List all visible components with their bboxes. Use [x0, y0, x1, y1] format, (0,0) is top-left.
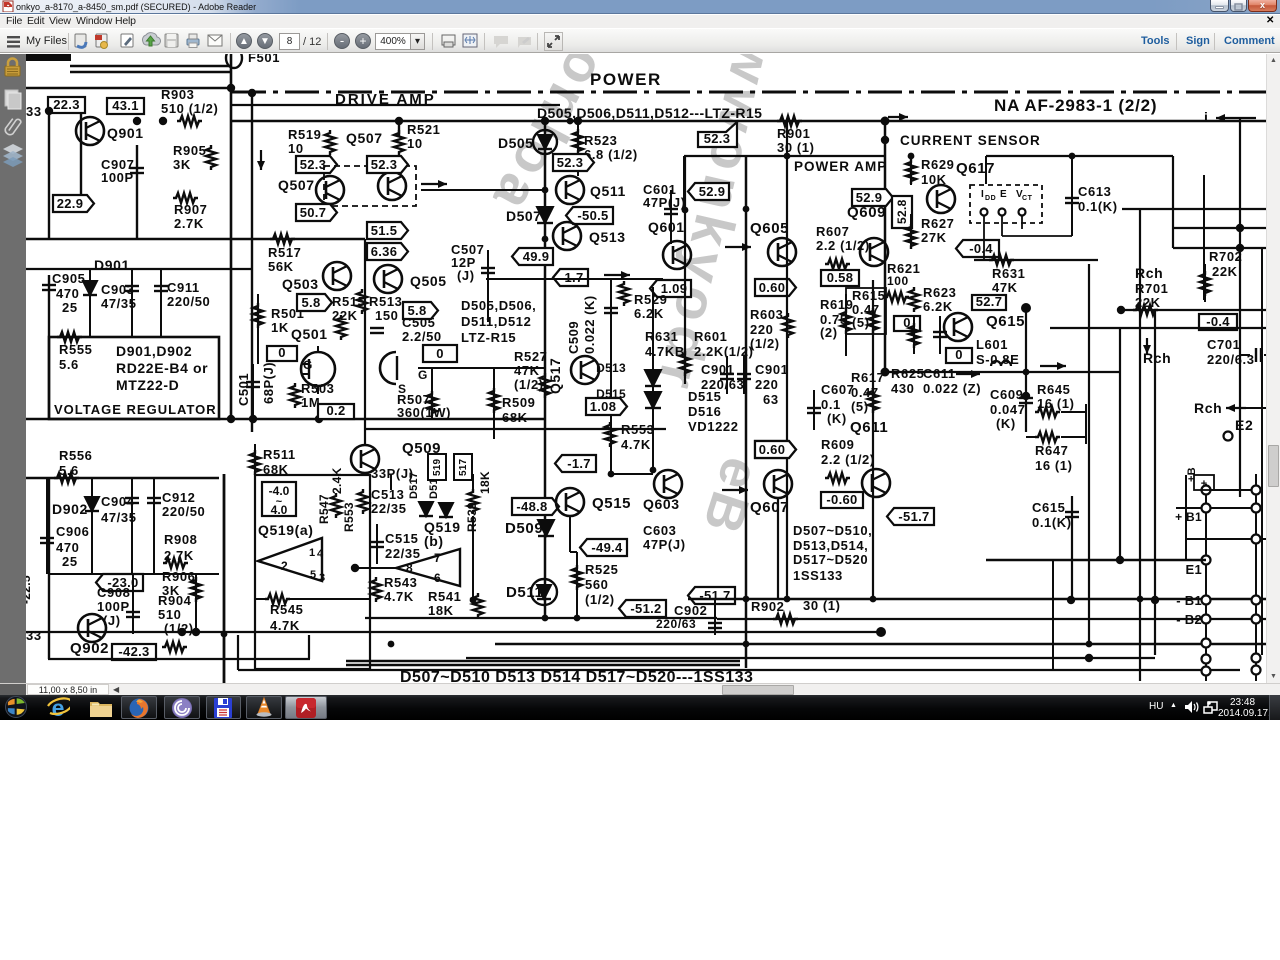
svg-text:22.9: 22.9 — [57, 196, 84, 211]
svg-text:Q902: Q902 — [70, 640, 109, 657]
svg-text:R904: R904 — [158, 593, 192, 608]
svg-text:R511: R511 — [263, 447, 296, 462]
svg-text:F501: F501 — [248, 54, 280, 65]
svg-text:Q519(a): Q519(a) — [258, 522, 314, 538]
svg-text:C513: C513 — [371, 487, 404, 502]
svg-text:I: I — [981, 189, 984, 200]
svg-text:DRIVE AMP: DRIVE AMP — [335, 91, 436, 108]
svg-text:R523: R523 — [584, 133, 617, 148]
svg-text:Q601: Q601 — [648, 219, 685, 235]
svg-text:D505: D505 — [498, 135, 533, 151]
svg-text:R901: R901 — [777, 126, 810, 141]
svg-text:- B1: - B1 — [1176, 593, 1202, 608]
svg-text:C603: C603 — [643, 523, 676, 538]
svg-text:R647: R647 — [1035, 443, 1068, 458]
svg-text:22/35: 22/35 — [385, 546, 421, 561]
svg-text:R627: R627 — [921, 216, 954, 231]
svg-text:Q615: Q615 — [986, 313, 1025, 330]
svg-text:R603: R603 — [750, 307, 783, 322]
svg-text:18K: 18K — [478, 471, 492, 494]
svg-text:(2): (2) — [820, 325, 838, 340]
svg-text:R908: R908 — [164, 532, 197, 547]
svg-text:Q507: Q507 — [278, 177, 315, 193]
svg-text:1.7: 1.7 — [565, 270, 584, 285]
svg-text:D513: D513 — [596, 361, 626, 375]
svg-text:C515: C515 — [385, 531, 418, 546]
svg-text:R529: R529 — [634, 292, 667, 307]
svg-text:C906: C906 — [56, 524, 89, 539]
svg-text:Q509: Q509 — [402, 440, 441, 457]
svg-text:0.60: 0.60 — [759, 442, 786, 457]
svg-text:220: 220 — [755, 377, 779, 392]
svg-text:22.3: 22.3 — [53, 97, 80, 112]
svg-text:D516: D516 — [688, 404, 721, 419]
svg-text:52.3: 52.3 — [704, 131, 731, 146]
svg-text:0.2: 0.2 — [327, 403, 346, 418]
svg-text:C912: C912 — [162, 490, 195, 505]
svg-text:VOLTAGE REGULATOR: VOLTAGE REGULATOR — [54, 402, 217, 417]
svg-text:C615: C615 — [1032, 500, 1065, 515]
svg-text:CURRENT SENSOR: CURRENT SENSOR — [900, 133, 1041, 148]
svg-text:S-0.8E: S-0.8E — [976, 352, 1019, 367]
svg-text:2.4K: 2.4K — [330, 467, 344, 494]
svg-text:30 (1): 30 (1) — [803, 598, 841, 613]
svg-text:43.1: 43.1 — [112, 98, 139, 113]
svg-text:220/50: 220/50 — [162, 504, 205, 519]
svg-text:360(1W): 360(1W) — [397, 405, 451, 420]
svg-text:47P(J): 47P(J) — [643, 195, 686, 210]
svg-text:R902: R902 — [751, 599, 784, 614]
svg-text:10: 10 — [288, 141, 304, 156]
svg-text:D902: D902 — [52, 501, 88, 517]
svg-text:49.9: 49.9 — [523, 249, 550, 264]
svg-text:R905: R905 — [173, 143, 206, 158]
svg-text:470: 470 — [56, 286, 80, 301]
svg-text:D517: D517 — [408, 472, 420, 499]
svg-text:47K: 47K — [514, 363, 540, 378]
svg-text:R629: R629 — [921, 157, 954, 172]
svg-text:C901: C901 — [755, 362, 788, 377]
svg-text:-51.7: -51.7 — [898, 509, 929, 524]
svg-text:2: 2 — [281, 559, 288, 573]
svg-text:2.2 (1/2): 2.2 (1/2) — [821, 452, 875, 467]
svg-text:220/50: 220/50 — [167, 294, 210, 309]
svg-text:4.7K: 4.7K — [270, 618, 300, 633]
svg-text:C609: C609 — [990, 387, 1023, 402]
svg-text:R556: R556 — [59, 448, 92, 463]
svg-text:R545: R545 — [270, 602, 303, 617]
svg-text:30 (1): 30 (1) — [777, 140, 815, 155]
svg-text:Q617: Q617 — [956, 160, 995, 177]
svg-text:0.60: 0.60 — [759, 280, 786, 295]
svg-text:D513,D514,: D513,D514, — [793, 538, 868, 553]
svg-text:-1.7: -1.7 — [567, 456, 591, 471]
svg-text:0: 0 — [278, 345, 286, 360]
svg-text:R903: R903 — [161, 87, 194, 102]
svg-text:Q503: Q503 — [282, 276, 319, 292]
svg-text:51.5: 51.5 — [371, 223, 398, 238]
svg-text:Q605: Q605 — [750, 220, 789, 237]
svg-text:68P(J): 68P(J) — [261, 362, 276, 404]
svg-text:Q609: Q609 — [847, 204, 886, 221]
svg-text:1.08: 1.08 — [590, 399, 617, 414]
svg-text:519: 519 — [432, 458, 443, 476]
svg-text:C611: C611 — [923, 366, 956, 381]
svg-text:R631: R631 — [645, 329, 678, 344]
svg-text:2.2 (1/2): 2.2 (1/2) — [816, 238, 870, 253]
svg-text:0.047: 0.047 — [990, 402, 1026, 417]
svg-text:-0.60: -0.60 — [826, 492, 857, 507]
svg-text:C903: C903 — [101, 282, 134, 297]
svg-text:Q603: Q603 — [643, 496, 680, 512]
svg-text:MTZ22-D: MTZ22-D — [116, 377, 179, 393]
svg-text:10: 10 — [407, 136, 423, 151]
svg-text:52.3: 52.3 — [557, 155, 584, 170]
svg-text:R623: R623 — [923, 285, 956, 300]
svg-text:7: 7 — [434, 551, 441, 565]
svg-text:+ B1: + B1 — [1175, 510, 1202, 524]
svg-text:R631: R631 — [992, 266, 1025, 281]
svg-text:C911: C911 — [167, 280, 200, 295]
svg-text:Q607: Q607 — [750, 499, 789, 516]
svg-text:150: 150 — [375, 308, 399, 323]
svg-text:430: 430 — [891, 381, 915, 396]
svg-text:D507~D510 D513 D514 D517~D520-: D507~D510 D513 D514 D517~D520---1SS133 — [400, 669, 753, 683]
svg-text:+: + — [1201, 478, 1207, 490]
svg-text:52.9: 52.9 — [699, 184, 726, 199]
svg-text:47K: 47K — [992, 280, 1018, 295]
svg-text:50.7: 50.7 — [300, 205, 327, 220]
svg-text:-51.2: -51.2 — [630, 601, 661, 616]
svg-text:E2: E2 — [1235, 417, 1253, 433]
svg-text:Q517: Q517 — [547, 358, 563, 394]
svg-text:1: 1 — [309, 547, 316, 559]
svg-text:3K: 3K — [173, 157, 191, 172]
svg-text:D511,D512: D511,D512 — [461, 314, 531, 329]
svg-text:220: 220 — [750, 322, 774, 337]
svg-text:4.0: 4.0 — [271, 503, 288, 517]
svg-text:D901: D901 — [94, 257, 130, 273]
svg-text:1K: 1K — [271, 320, 289, 335]
svg-text:C509: C509 — [566, 321, 581, 354]
svg-text:3: 3 — [319, 572, 326, 584]
svg-text:R513: R513 — [369, 294, 402, 309]
svg-text:560: 560 — [585, 577, 609, 592]
svg-text:R553: R553 — [342, 502, 356, 532]
svg-text:-42.3: -42.3 — [118, 644, 149, 659]
svg-text:S: S — [398, 382, 407, 396]
svg-text:-22.5: -22.5 — [26, 575, 33, 604]
svg-text:6: 6 — [434, 571, 441, 585]
svg-text:(J): (J) — [457, 268, 475, 283]
svg-text:R907: R907 — [174, 202, 207, 217]
svg-text:0: 0 — [955, 347, 963, 362]
svg-text:2.7K: 2.7K — [174, 216, 204, 231]
svg-text:(5): (5) — [852, 315, 870, 330]
svg-text:52.3: 52.3 — [300, 157, 327, 172]
svg-text:R517: R517 — [268, 245, 301, 260]
svg-text:NA AF-2983-1 (2/2): NA AF-2983-1 (2/2) — [994, 96, 1157, 115]
svg-text:(K): (K) — [996, 416, 1016, 431]
svg-text:16 (1): 16 (1) — [1035, 458, 1073, 473]
svg-text:(K): (K) — [827, 411, 847, 426]
svg-text:R645: R645 — [1037, 382, 1070, 397]
svg-text:27K: 27K — [921, 230, 947, 245]
svg-text:-48.8: -48.8 — [516, 499, 547, 514]
svg-text:0: 0 — [436, 346, 444, 361]
svg-text:470: 470 — [56, 540, 80, 555]
svg-text:4: 4 — [317, 548, 324, 560]
svg-text:-50.5: -50.5 — [577, 208, 608, 223]
svg-text:6.2K: 6.2K — [923, 299, 953, 314]
svg-text:C613: C613 — [1078, 184, 1111, 199]
svg-text:16 (1): 16 (1) — [1037, 396, 1075, 411]
svg-text:0.1(K): 0.1(K) — [1078, 199, 1118, 214]
svg-text:Q513: Q513 — [589, 229, 626, 245]
svg-text:0.022 (Z): 0.022 (Z) — [923, 381, 981, 396]
svg-text:D515: D515 — [688, 389, 721, 404]
svg-text:D507: D507 — [506, 208, 541, 224]
svg-text:(b): (b) — [424, 533, 444, 549]
svg-text:0.58: 0.58 — [827, 270, 854, 285]
svg-text:D901,D902: D901,D902 — [116, 343, 192, 359]
svg-text:POWER AMP: POWER AMP — [794, 159, 887, 174]
svg-text:RD22E-B4 or: RD22E-B4 or — [116, 360, 208, 376]
svg-text:52.9: 52.9 — [856, 190, 883, 205]
svg-text:220/63: 220/63 — [656, 617, 696, 631]
svg-text:25: 25 — [62, 300, 78, 315]
svg-text:CT: CT — [1022, 195, 1033, 202]
svg-text:D509: D509 — [505, 520, 543, 537]
svg-text:C701: C701 — [1207, 337, 1240, 352]
svg-text:R519: R519 — [288, 127, 321, 142]
svg-text:52.7: 52.7 — [976, 294, 1003, 309]
svg-text:5.6: 5.6 — [59, 357, 79, 372]
svg-text:2.2/50: 2.2/50 — [402, 329, 442, 344]
svg-text:C902: C902 — [674, 603, 707, 618]
svg-text:517: 517 — [458, 458, 469, 476]
svg-text:D507~D510,: D507~D510, — [793, 523, 872, 538]
svg-text:Q901: Q901 — [107, 125, 144, 141]
svg-text:5.8: 5.8 — [302, 295, 321, 310]
svg-text:R541: R541 — [428, 589, 461, 604]
svg-text:C607: C607 — [821, 382, 854, 397]
svg-text:47P(J): 47P(J) — [643, 537, 686, 552]
svg-text:5: 5 — [310, 569, 317, 581]
svg-text:(1/2): (1/2) — [750, 336, 780, 351]
svg-text:63: 63 — [763, 392, 779, 407]
svg-text:i: i — [1204, 109, 1209, 125]
svg-text:(5): (5) — [851, 399, 869, 414]
svg-text:R521: R521 — [407, 122, 440, 137]
svg-text:52.8: 52.8 — [895, 199, 909, 224]
svg-text:33: 33 — [26, 628, 42, 643]
svg-text:25: 25 — [62, 554, 78, 569]
svg-text:510: 510 — [158, 607, 182, 622]
svg-text:C501: C501 — [236, 373, 251, 406]
svg-text:D515: D515 — [596, 387, 626, 401]
svg-text:Q507: Q507 — [346, 130, 383, 146]
svg-text:56K: 56K — [268, 259, 294, 274]
svg-text:R601: R601 — [694, 329, 727, 344]
svg-text:Q515: Q515 — [592, 495, 631, 512]
svg-text:R525: R525 — [585, 562, 618, 577]
svg-text:R607: R607 — [816, 224, 849, 239]
svg-text:0.022 (K): 0.022 (K) — [582, 295, 597, 354]
svg-text:1SS133: 1SS133 — [793, 568, 843, 583]
svg-text:52.3: 52.3 — [371, 157, 398, 172]
svg-text:G: G — [418, 368, 428, 382]
svg-text:8: 8 — [406, 561, 413, 575]
svg-text:LTZ-R15: LTZ-R15 — [461, 330, 516, 345]
svg-text:(1/2): (1/2) — [585, 592, 615, 607]
svg-text:0.1: 0.1 — [821, 397, 841, 412]
svg-text:22K: 22K — [1212, 264, 1238, 279]
svg-text:6.36: 6.36 — [371, 244, 398, 259]
svg-text:33: 33 — [26, 104, 42, 119]
svg-text:-0.4: -0.4 — [1206, 314, 1230, 329]
svg-text:6.2K: 6.2K — [634, 306, 664, 321]
svg-text:R527: R527 — [514, 349, 547, 364]
svg-text:4.7K: 4.7K — [621, 437, 651, 452]
svg-text:-0.4: -0.4 — [969, 241, 993, 256]
svg-text:Rch: Rch — [1194, 400, 1222, 416]
svg-text:C904: C904 — [101, 494, 135, 509]
svg-text:100: 100 — [887, 274, 909, 288]
svg-text:510 (1/2): 510 (1/2) — [161, 101, 218, 116]
svg-text:100P: 100P — [97, 599, 130, 614]
svg-text:22/35: 22/35 — [371, 501, 407, 516]
svg-text:68K: 68K — [502, 410, 528, 425]
svg-text:VD1222: VD1222 — [688, 419, 739, 434]
svg-text:C908: C908 — [97, 585, 130, 600]
svg-text:R509: R509 — [502, 395, 535, 410]
svg-text:E: E — [1000, 189, 1007, 200]
svg-text:C905: C905 — [52, 271, 85, 286]
svg-text:Q501: Q501 — [291, 326, 328, 342]
svg-text:-49.4: -49.4 — [591, 540, 623, 555]
svg-text:E1: E1 — [1185, 562, 1202, 577]
svg-text:R609: R609 — [821, 437, 854, 452]
svg-text:R555: R555 — [59, 342, 92, 357]
svg-text:Q611: Q611 — [850, 419, 888, 436]
svg-text:- B2: - B2 — [1176, 612, 1202, 627]
svg-text:POWER: POWER — [590, 70, 662, 89]
svg-text:Q511: Q511 — [590, 183, 626, 199]
svg-text:Q505: Q505 — [410, 273, 447, 289]
svg-text:4.7K: 4.7K — [384, 589, 414, 604]
svg-text:R543: R543 — [384, 575, 417, 590]
svg-text:R625: R625 — [891, 366, 924, 381]
svg-text:R617: R617 — [851, 370, 884, 385]
svg-text:R503: R503 — [301, 381, 334, 396]
svg-text:18K: 18K — [428, 603, 454, 618]
svg-text:100P: 100P — [101, 170, 134, 185]
svg-text:R615: R615 — [852, 288, 885, 303]
svg-text:R619: R619 — [820, 297, 853, 312]
svg-text:D517~D520: D517~D520 — [793, 552, 868, 567]
svg-text:DD: DD — [985, 195, 996, 202]
svg-text:L601: L601 — [976, 337, 1008, 352]
svg-text:C505: C505 — [402, 315, 435, 330]
svg-text:D505,D506,: D505,D506, — [461, 298, 536, 313]
